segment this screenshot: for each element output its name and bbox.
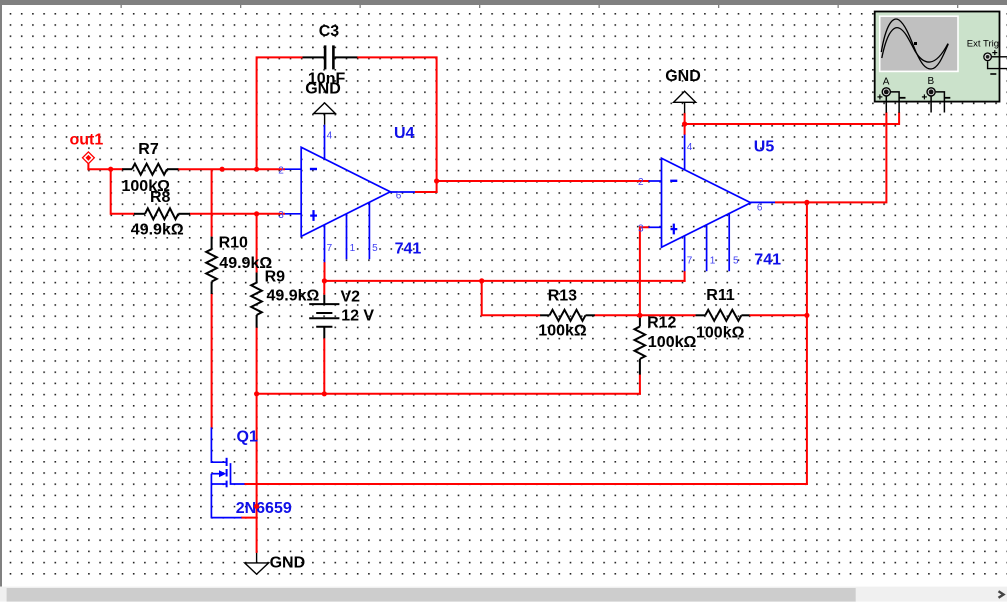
resistor R13	[540, 310, 595, 321]
wire: R9 bottom down to bottom GND	[256, 328, 258, 554]
svg-text:R10: R10	[219, 235, 248, 252]
wire: R9 column top (R8 row down to R9)	[256, 213, 258, 273]
resistor R9 (vertical)	[251, 273, 262, 328]
capacitor C3	[303, 45, 358, 69]
wire: probe stub down from out1 probe	[87, 163, 89, 171]
junction (R9 bottom / bottom row)	[254, 391, 259, 396]
wire: vertical drop junction to R8 row	[110, 168, 112, 215]
junction (row1 mid)	[220, 167, 225, 172]
svg-text:R9: R9	[265, 269, 286, 286]
wire: R8 row left segment	[111, 213, 135, 215]
svg-text:R8: R8	[150, 189, 171, 206]
wire: scope A- black lead	[891, 92, 899, 113]
battery V2	[309, 295, 339, 338]
resistor R8	[134, 208, 190, 219]
node out1 probe	[83, 152, 95, 164]
wire: R7 right to U4 pin2	[178, 168, 285, 170]
wire: U4 output lead red part	[415, 191, 438, 193]
resistor R10 (vertical)	[206, 237, 217, 294]
svg-text:49.9kΩ: 49.9kΩ	[131, 222, 184, 239]
wire: U5 GND net to scope A-	[685, 112, 900, 124]
wire: V2 top lead red	[323, 280, 325, 295]
op-amp U4	[285, 125, 415, 263]
wire: Q1 gate jumper red part	[241, 517, 258, 519]
svg-text:741: 741	[754, 252, 781, 269]
junction (R11 / right column)	[804, 313, 809, 318]
svg-text:100kΩ: 100kΩ	[538, 323, 587, 340]
svg-text:1: 1	[710, 255, 716, 266]
svg-text:U4: U4	[394, 125, 415, 142]
wire: pin7 row across to U5 pin7	[324, 280, 686, 282]
svg-text:Q1: Q1	[237, 428, 258, 445]
wire: R10 column top (row1 down to R10)	[211, 169, 213, 236]
junction (gate net on ground column)	[254, 504, 259, 509]
junction (V2 bottom / bottom row)	[322, 391, 327, 396]
svg-text:2: 2	[638, 177, 644, 188]
wire: U5 GND red segment above pin4	[684, 113, 686, 135]
wire: U5 pin7 red drop	[684, 271, 686, 282]
svg-text:5: 5	[733, 255, 739, 266]
top ruler bar	[0, 0, 1007, 8]
wire: U4 out junction to U5 pin2	[436, 180, 650, 182]
wire: right column x=806.9 output down to Q1 source row	[806, 201, 808, 485]
svg-text:GND: GND	[305, 80, 341, 97]
svg-text:U5: U5	[754, 138, 775, 155]
svg-text:R12: R12	[647, 315, 676, 332]
transistor Q1	[211, 427, 244, 518]
svg-text:GND: GND	[665, 68, 701, 85]
oscilloscope XSC	[875, 12, 1007, 102]
svg-text:C3: C3	[319, 23, 340, 40]
wire: drop from pin7 row to R13 row	[482, 281, 541, 315]
wire: R13 right to R12 junction to R11 left	[595, 314, 696, 316]
svg-text:R7: R7	[138, 141, 159, 158]
wire: V2 bottom to row y=393.8	[323, 338, 325, 395]
wire: R10 bottom down to Q1 drain	[211, 294, 213, 428]
svg-text:GND: GND	[270, 554, 306, 571]
junction (U4 pin7 / V2)	[322, 278, 327, 283]
wire: Q1 source row y=484	[244, 483, 808, 485]
resistor R12 (vertical)	[635, 316, 646, 374]
wire: C3 feedback vertical at x=256.6 down to row1	[257, 57, 303, 170]
svg-text:7: 7	[687, 255, 693, 266]
ground symbol above U5	[674, 91, 696, 113]
ground symbol above U4	[314, 103, 336, 125]
wire: scope B- stub	[936, 92, 945, 113]
svg-text:6: 6	[757, 203, 763, 214]
ground symbol bottom	[245, 553, 269, 574]
svg-text:V2: V2	[341, 289, 361, 306]
svg-text:R11: R11	[706, 287, 735, 304]
svg-text:1: 1	[350, 243, 356, 254]
wire: R8 right to U4 pin3	[190, 213, 286, 215]
wire: bottom horizontal row y=393.8	[256, 393, 641, 395]
svg-text:4: 4	[687, 142, 693, 153]
svg-text:A: A	[883, 77, 890, 88]
wire: U5 output to scope A+ column	[775, 112, 887, 202]
junction (R9 top / pin3)	[254, 211, 259, 216]
svg-text:6: 6	[396, 191, 402, 202]
junction (U5 out / right column)	[804, 200, 809, 205]
svg-text:4: 4	[327, 131, 333, 142]
op-amp U5	[649, 135, 776, 272]
junction (pin7 row / R13 drop)	[479, 278, 484, 283]
bottom scrollbar	[0, 587, 1007, 602]
svg-text:3: 3	[278, 210, 284, 221]
svg-text:49.9kΩ: 49.9kΩ	[267, 288, 320, 305]
left border	[0, 5, 2, 587]
wire: probe to junction on row1	[87, 168, 111, 170]
svg-text:2N6659: 2N6659	[236, 500, 292, 517]
svg-text:5: 5	[372, 243, 378, 254]
svg-text:2: 2	[278, 165, 284, 176]
svg-text:out1: out1	[70, 131, 104, 148]
svg-text:7: 7	[327, 243, 333, 254]
wire: junction to R7 left lead	[111, 168, 123, 170]
resistor R7	[122, 164, 178, 175]
svg-text:12 V: 12 V	[341, 308, 374, 325]
svg-text:B: B	[928, 76, 935, 87]
resistor R11	[696, 310, 750, 321]
svg-text:100kΩ: 100kΩ	[648, 334, 697, 351]
wire: scope A+ black stub	[885, 97, 887, 113]
junction (R13/R12/U5 pin3)	[637, 313, 642, 318]
svg-text:741: 741	[395, 241, 422, 258]
junction (U5 gnd / scope A-)	[682, 121, 687, 126]
wire: C3 right plate to corner and down to U4 output row	[357, 57, 437, 193]
wire: R11 right to right column junction	[749, 314, 808, 316]
wire: U4 pin7 red drop	[324, 262, 326, 282]
svg-text:100kΩ: 100kΩ	[696, 325, 745, 342]
wire: scope B+ stub	[930, 97, 932, 113]
junction (probe/R8 branch)	[108, 167, 113, 172]
junction (C3 / U4 out)	[434, 178, 439, 183]
wire: U5 pin3 drop to R12 junction	[640, 227, 650, 316]
junction (C3 drop / pin2)	[254, 167, 259, 172]
svg-text:R13: R13	[548, 288, 577, 305]
svg-text:3: 3	[638, 224, 644, 235]
wire: R12 bottom red	[639, 375, 641, 395]
svg-text:Ext Trig: Ext Trig	[967, 38, 999, 49]
